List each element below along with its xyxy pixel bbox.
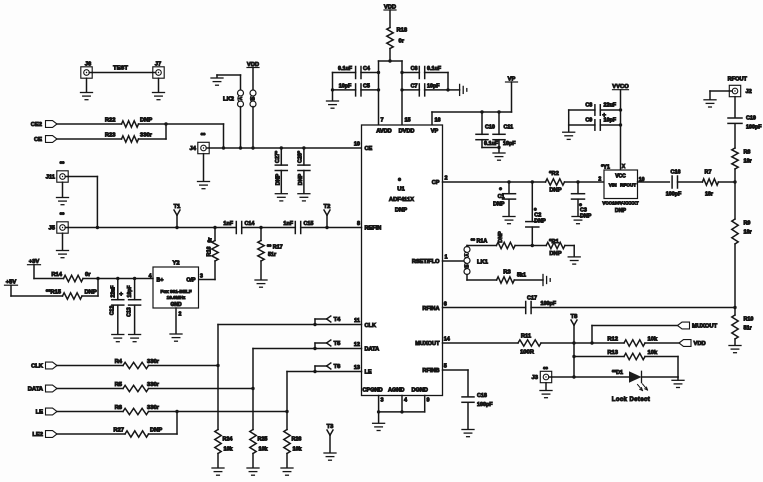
svg-text:DNP: DNP — [276, 173, 282, 185]
test point T1 — [175, 226, 178, 229]
svg-text:MUXOUT: MUXOUT — [415, 341, 440, 347]
svg-text:22uF: 22uF — [604, 103, 617, 109]
svg-text:RFINB: RFINB — [422, 368, 439, 374]
svg-text:VDD: VDD — [694, 341, 706, 347]
wire R8 to node — [734, 169, 736, 182]
ground below J11 — [62, 182, 64, 197]
svg-text:DATA: DATA — [28, 387, 44, 393]
node T8 — [572, 341, 575, 344]
wire CLK to R4 — [57, 365, 123, 367]
junction T5 — [313, 347, 316, 350]
node R17 top — [259, 226, 262, 229]
svg-text:LK1: LK1 — [477, 260, 489, 266]
ground C8/C9 — [563, 131, 575, 133]
capacitor C8 — [569, 109, 595, 111]
capacitor C3 — [577, 182, 579, 194]
capacitor C11 — [498, 112, 500, 134]
svg-text:C1: C1 — [498, 194, 505, 200]
wire VP down and to pin 16 — [511, 82, 513, 112]
svg-text:C27*: C27* — [275, 150, 281, 163]
svg-text:0.1uF: 0.1uF — [338, 66, 353, 72]
wire CE rail to IC pin 10 — [224, 147, 362, 149]
capacitor C19 — [728, 117, 742, 119]
wire C14 to C15 — [242, 227, 296, 229]
wire node to R1 — [532, 245, 546, 247]
svg-text:C6: C6 — [411, 66, 418, 72]
svg-text:330r: 330r — [140, 132, 153, 138]
resistor R13 — [624, 353, 645, 359]
svg-text:C5: C5 — [363, 83, 370, 89]
svg-text:CE: CE — [34, 137, 42, 143]
svg-text:0.1uF: 0.1uF — [484, 141, 499, 147]
ground Y2 — [170, 333, 182, 335]
svg-text:R26: R26 — [292, 437, 302, 443]
svg-text:R18: R18 — [397, 28, 408, 34]
resistor R22 — [122, 121, 139, 127]
op-amp U1 ADF411X body — [362, 125, 443, 396]
svg-text:CE2: CE2 — [31, 122, 42, 128]
wire node to Y2 B+ — [98, 278, 153, 280]
svg-text:13: 13 — [354, 365, 360, 371]
wire R11 to nodes — [541, 342, 624, 344]
wire C16 to R7 — [678, 181, 703, 183]
wire R23 up to CE node — [139, 138, 167, 140]
connector J4 — [198, 142, 209, 153]
svg-text:R4: R4 — [115, 359, 123, 365]
svg-text:REFIN: REFIN — [365, 226, 382, 232]
wire VDD to jumper B — [252, 68, 254, 91]
resistor R11 — [518, 340, 541, 346]
svg-text:**: ** — [543, 367, 548, 373]
svg-text:C13: C13 — [127, 307, 133, 317]
svg-text:X: X — [622, 164, 626, 170]
svg-text:** R1A: ** R1A — [471, 239, 488, 245]
connector J5 — [57, 222, 68, 233]
svg-text:R8: R8 — [744, 150, 751, 156]
wire C6 down to C7 node — [447, 73, 449, 90]
node J5/J11 — [96, 226, 99, 229]
svg-text:C8: C8 — [585, 103, 592, 109]
wire J5 to node — [68, 227, 97, 229]
svg-text:0r: 0r — [85, 272, 91, 278]
resistor R16 — [214, 228, 216, 241]
wire CE to R23 — [57, 138, 122, 140]
resistor R18 — [387, 28, 393, 49]
svg-text:**: ** — [60, 213, 65, 219]
svg-text:R6: R6 — [115, 405, 123, 411]
svg-text:100pF: 100pF — [477, 402, 493, 408]
LED arrows — [638, 384, 648, 391]
svg-text:C16: C16 — [671, 170, 681, 176]
input port CE — [46, 136, 58, 143]
ground below T3 — [324, 452, 336, 454]
svg-text:DNP: DNP — [150, 427, 162, 433]
svg-text:330r: 330r — [147, 382, 160, 388]
capacitor C13 — [134, 279, 136, 300]
svg-text:DGND: DGND — [412, 388, 428, 394]
resistor R1 — [546, 242, 565, 248]
test point T4 — [314, 319, 316, 325]
svg-text:RSET/FLO: RSET/FLO — [412, 259, 440, 265]
svg-text:1nF: 1nF — [223, 221, 233, 227]
node T8 bottom — [572, 375, 575, 378]
node LE2 join — [175, 410, 178, 413]
svg-text:0.1uF: 0.1uF — [427, 66, 442, 72]
wire R15 up to node — [82, 295, 98, 297]
svg-text:C18: C18 — [477, 393, 487, 399]
wire LK2 A to CE rail — [240, 107, 242, 148]
wire TEST J6-J7 — [92, 72, 153, 74]
ground below J5 — [62, 233, 64, 250]
node R16 top — [213, 226, 216, 229]
svg-text:T1: T1 — [174, 204, 182, 210]
junction T4 — [313, 323, 316, 326]
junction T6 — [313, 370, 316, 373]
svg-text:C10: C10 — [485, 125, 495, 131]
ground below J3 — [545, 383, 547, 390]
svg-text:T5: T5 — [334, 341, 342, 347]
resistor R9 — [732, 219, 738, 244]
svg-text:GND: GND — [170, 302, 182, 308]
wire pin 1 to LK1 — [443, 260, 465, 262]
ground below C12 — [112, 334, 124, 336]
resistor R7 — [702, 179, 718, 185]
svg-text:ADF411X: ADF411X — [389, 197, 414, 203]
svg-text:C15: C15 — [304, 221, 314, 227]
svg-text:VCC: VCC — [615, 173, 626, 179]
svg-text:100pF: 100pF — [666, 192, 682, 198]
wire down to jumper A — [240, 75, 242, 90]
svg-text:10: 10 — [354, 142, 360, 148]
resistor R25 — [252, 389, 254, 430]
svg-text:DNP: DNP — [85, 289, 97, 295]
svg-text:R3: R3 — [503, 270, 511, 276]
node C3 — [576, 180, 579, 183]
svg-text:Lock Detect: Lock Detect — [612, 397, 650, 403]
svg-text:100R: 100R — [520, 350, 535, 356]
output port VDD — [679, 340, 691, 347]
svg-text:VCO190V-XXXXT: VCO190V-XXXXT — [602, 201, 639, 206]
node DATA — [251, 387, 254, 390]
svg-text:51r: 51r — [268, 252, 277, 258]
resistor R24 — [217, 366, 219, 430]
svg-text:R9: R9 — [744, 221, 751, 227]
wire DVDD vertical pin 15 — [401, 61, 403, 125]
wire R4 to node — [149, 365, 219, 367]
capacitor C9 — [569, 124, 595, 126]
svg-text:C7: C7 — [411, 83, 418, 89]
ground below C18 — [462, 429, 474, 431]
node R13 — [572, 355, 575, 358]
svg-text:100pF: 100pF — [541, 301, 557, 307]
svg-text:DVDD: DVDD — [399, 129, 415, 135]
ground below C1 — [503, 216, 515, 218]
svg-text:R14: R14 — [51, 272, 62, 278]
ground below R26 — [281, 467, 293, 469]
resistor R4 — [123, 362, 149, 368]
svg-text:T3: T3 — [327, 424, 335, 430]
svg-text:T8: T8 — [571, 314, 579, 320]
ground below C13 — [129, 334, 141, 336]
wire R13 down to LED cathode — [645, 356, 678, 358]
wire C8/C9 ground rail — [568, 110, 570, 132]
svg-text:**R15: **R15 — [46, 289, 62, 295]
wire pin 6 to C17 — [443, 307, 526, 309]
svg-text:12: 12 — [354, 342, 360, 348]
wire split to AVDD/DVDD verticals — [379, 60, 403, 62]
wire pin 14 to R11 — [443, 342, 519, 344]
svg-text:*R2: *R2 — [549, 171, 559, 177]
wire C19 to R8 — [734, 124, 736, 148]
wire R22 to node — [139, 123, 167, 125]
ground below J4 — [203, 154, 205, 181]
svg-text:CE: CE — [365, 146, 373, 152]
svg-text:AVDD: AVDD — [376, 129, 391, 135]
svg-text:MUXOUT: MUXOUT — [692, 324, 718, 330]
svg-text:5: 5 — [444, 364, 447, 370]
svg-text:C12: C12 — [110, 306, 116, 316]
svg-text:330r: 330r — [147, 359, 160, 365]
resistor R12 — [624, 340, 645, 346]
ground below R25 — [247, 467, 259, 469]
svg-text:R10: R10 — [744, 317, 754, 323]
svg-text:10k: 10k — [293, 447, 302, 453]
svg-text:**: ** — [60, 162, 65, 168]
svg-text:C9: C9 — [585, 118, 592, 124]
svg-text:R16: R16 — [207, 247, 213, 257]
wire refin rail left — [97, 227, 236, 229]
wire R3 to rotated ground — [514, 279, 543, 281]
svg-text:DATA: DATA — [365, 347, 380, 353]
svg-text:J5: J5 — [49, 226, 56, 232]
capacitor C6 — [402, 72, 419, 74]
wire node to corner, down to CE line — [166, 123, 224, 125]
wire T8 node to R13 — [574, 356, 624, 358]
test point T8 — [571, 320, 574, 325]
svg-text:R7: R7 — [705, 170, 712, 176]
capacitor C5 — [333, 89, 356, 91]
svg-text:10pF: 10pF — [604, 118, 617, 124]
svg-text:T2: T2 — [324, 204, 331, 210]
resistor R10 — [734, 308, 736, 316]
svg-text:22uF: 22uF — [110, 286, 116, 298]
svg-text:51r: 51r — [744, 326, 753, 332]
input port DATA — [46, 385, 58, 392]
input port CLK — [46, 362, 58, 369]
capacitor C4 — [333, 72, 356, 74]
svg-text:1: 1 — [445, 255, 448, 261]
wire R27 up to LE — [149, 433, 178, 435]
svg-text:R12: R12 — [607, 336, 618, 342]
connector J11 — [57, 171, 68, 182]
node R9/R10 — [733, 306, 736, 309]
svg-text:VIN: VIN — [609, 182, 617, 187]
svg-text:R27: R27 — [113, 427, 124, 433]
capacitor C10 — [481, 112, 483, 134]
ground at LED — [677, 377, 679, 380]
input port LE — [46, 408, 58, 415]
svg-text:+: + — [119, 291, 123, 298]
svg-text:LE2: LE2 — [32, 432, 43, 438]
resistor R8 — [732, 148, 738, 169]
svg-text:**: ** — [201, 133, 206, 139]
wire pin 5 RFINB to C18 — [443, 369, 469, 371]
svg-text:** R17: ** R17 — [267, 245, 283, 251]
connector J7 — [153, 67, 164, 78]
resistor R5 — [123, 385, 149, 391]
node R7/R8/R9 — [733, 180, 736, 183]
svg-text:RFOUT: RFOUT — [728, 77, 748, 83]
svg-text:J2: J2 — [746, 89, 752, 95]
test point T3 — [327, 430, 330, 435]
svg-text:3: 3 — [200, 274, 203, 280]
wire J3 to LED — [552, 376, 629, 378]
svg-text:RFINA: RFINA — [422, 306, 439, 312]
svg-text:LE: LE — [365, 370, 372, 376]
svg-text:18r: 18r — [744, 159, 753, 165]
wire R2 to VCO — [565, 181, 605, 183]
node CLK — [216, 364, 219, 367]
svg-text:CP: CP — [432, 180, 440, 186]
output port MUXOUT — [678, 322, 690, 329]
capacitor C14 — [235, 222, 237, 234]
wire gnd bus — [379, 411, 425, 413]
svg-text:18r: 18r — [744, 230, 753, 236]
resistor R17 — [260, 228, 262, 241]
wire R5 to node — [149, 388, 254, 390]
wire CLK up and to pin 11 — [217, 325, 219, 366]
capacitor C27 — [280, 148, 282, 165]
svg-text:**D1: **D1 — [612, 370, 623, 376]
svg-text:10.0MHz: 10.0MHz — [167, 295, 186, 300]
svg-text:DNP: DNP — [140, 117, 152, 123]
capacitor C17 — [525, 302, 527, 314]
input port CE2 — [46, 121, 58, 128]
ground below J7 — [158, 78, 160, 92]
svg-text:330r: 330r — [147, 405, 160, 411]
svg-text:15: 15 — [405, 118, 411, 124]
wire J11 to refin node — [68, 176, 97, 178]
svg-text:RFOUT: RFOUT — [620, 182, 636, 187]
wire AVDD vertical pin 7 — [378, 61, 380, 125]
svg-text:C14: C14 — [245, 221, 255, 227]
wire DATA to R5 — [57, 388, 123, 390]
svg-text:J11: J11 — [46, 175, 56, 181]
jumper LK2 B — [250, 90, 256, 96]
svg-text:DNP: DNP — [615, 208, 627, 214]
svg-text:DNP: DNP — [298, 173, 304, 185]
capacitor C28 — [303, 148, 305, 165]
wire LE2 to R27 — [57, 433, 125, 435]
svg-text:R25: R25 — [258, 437, 268, 443]
svg-text:C19: C19 — [746, 116, 756, 122]
svg-text:AGND: AGND — [388, 388, 404, 394]
wire LK2 B to CE rail — [252, 107, 254, 148]
ground below C11 — [498, 148, 500, 153]
capacitor C15 — [294, 222, 296, 234]
svg-text:6: 6 — [444, 302, 447, 308]
svg-text:J3: J3 — [532, 375, 539, 381]
wire C15 to pin 8 — [301, 227, 362, 229]
wire R1 to ground — [565, 245, 574, 247]
svg-text:2: 2 — [598, 177, 601, 183]
ground below R24 — [212, 467, 224, 469]
wire CP pin 2 to filter — [443, 181, 546, 183]
wire R10 to ground — [734, 339, 736, 345]
resistor R23 — [122, 136, 139, 142]
wire DATA up and to pin 12 — [252, 349, 254, 389]
svg-text:Y2: Y2 — [172, 261, 179, 267]
ground IC — [378, 412, 380, 423]
wire R16 to Y2 pin3 — [214, 261, 216, 280]
svg-text:7: 7 — [381, 118, 384, 124]
oscillator Y2 — [153, 267, 199, 308]
resistor R27 — [125, 431, 149, 437]
wire C4/C5 ground rail — [332, 73, 334, 101]
junction at J4 rail — [222, 146, 225, 149]
svg-text:R23: R23 — [105, 132, 116, 138]
ground below J6 — [86, 78, 88, 92]
wire R6 to node — [149, 411, 288, 413]
svg-text:0r: 0r — [208, 237, 214, 243]
svg-text:DNP: DNP — [498, 231, 504, 243]
svg-text:8: 8 — [357, 221, 360, 227]
wire R18 to split node — [389, 49, 391, 62]
capacitor C1 — [508, 182, 510, 194]
input port LE2 — [46, 431, 58, 438]
wire node to R9 — [734, 182, 736, 219]
test point T6 — [314, 366, 316, 372]
svg-text:B+: B+ — [157, 278, 164, 284]
svg-text:10pF: 10pF — [427, 83, 440, 89]
wire R9 to RFINA node — [734, 244, 736, 308]
node LE — [285, 410, 288, 413]
test point T2 — [325, 226, 328, 229]
svg-text:2: 2 — [445, 176, 448, 182]
ground C4/C5 — [327, 100, 339, 102]
svg-text:R22: R22 — [105, 117, 116, 123]
node R1/C2 — [531, 244, 534, 247]
wire R14 to node — [83, 278, 98, 280]
wire J4 to CE rail — [209, 147, 223, 149]
wire to rotated ground — [448, 89, 460, 91]
node muxout branch — [590, 341, 593, 344]
wire LK1 B to R3 — [466, 275, 468, 281]
svg-text:DNP: DNP — [395, 208, 407, 214]
svg-text:R13: R13 — [607, 350, 618, 356]
svg-text:T6: T6 — [334, 364, 342, 370]
ground rotated at R3 — [542, 275, 544, 286]
svg-text:C4: C4 — [363, 66, 370, 72]
svg-text:10pF: 10pF — [127, 286, 133, 298]
wire pin 4 stub — [401, 396, 403, 412]
connector J3 — [540, 371, 551, 382]
svg-text:R11: R11 — [521, 334, 532, 340]
wire LE up and to pin 13 — [286, 372, 288, 412]
capacitor C2 series — [531, 182, 533, 222]
svg-text:*Y1: *Y1 — [601, 165, 610, 171]
svg-text:DNP: DNP — [493, 202, 505, 208]
svg-text:10k: 10k — [259, 447, 268, 453]
svg-text:J6: J6 — [85, 62, 92, 68]
wire VVCO to VCC pin — [620, 90, 622, 170]
resistor R14 — [64, 275, 84, 281]
capacitor C12 — [117, 279, 119, 300]
svg-text:2: 2 — [179, 312, 182, 318]
jumper LK2 A — [238, 90, 244, 96]
svg-text:VP: VP — [431, 129, 439, 135]
ground left of J2 — [710, 90, 729, 92]
